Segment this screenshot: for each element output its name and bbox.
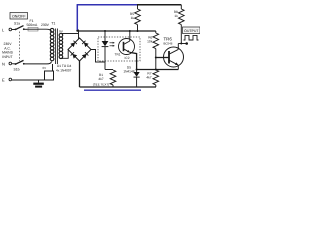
svg-text:TR1: TR1	[115, 53, 121, 57]
wire to transformer primary	[38, 29, 52, 31]
svg-text:T1: T1	[51, 22, 55, 26]
ground	[33, 80, 44, 88]
svg-text:S1a: S1a	[14, 22, 20, 26]
wire top rail black	[137, 4, 181, 6]
wire bridge right vertex down	[91, 50, 105, 63]
wire earth	[12, 79, 45, 81]
wire bridge bottom to 0V rail	[79, 61, 81, 87]
svg-text:BC548: BC548	[164, 42, 173, 46]
svg-text:1k: 1k	[174, 14, 178, 18]
svg-text:N: N	[2, 61, 5, 66]
transformer T1	[50, 22, 63, 64]
svg-text:S1b: S1b	[14, 67, 20, 71]
resistor R1	[93, 70, 116, 88]
svg-text:4x 1N4007: 4x 1N4007	[56, 69, 72, 73]
resistor R7	[146, 70, 158, 87]
diode D5	[123, 65, 139, 87]
screen box	[45, 71, 54, 80]
optocoupler IC2 dashed box	[98, 37, 140, 61]
svg-text:10k: 10k	[147, 40, 153, 44]
junction blue top	[76, 30, 78, 32]
svg-text:0V: 0V	[43, 66, 47, 70]
svg-text:ON/OFF: ON/OFF	[12, 15, 26, 19]
phototransistor TR1	[115, 30, 137, 70]
resistor R5	[130, 5, 140, 32]
terminal N	[2, 61, 12, 66]
wire 0V rail	[80, 86, 157, 88]
fuse F1	[27, 19, 39, 31]
svg-text:E: E	[2, 77, 5, 82]
terminal E	[2, 77, 12, 82]
svg-text:1N4148: 1N4148	[123, 70, 134, 74]
diode D1	[70, 41, 77, 48]
svg-text:4k7: 4k7	[98, 77, 103, 81]
wire secondary bottom	[63, 50, 69, 58]
transistor TR6	[164, 37, 184, 70]
wire screen to core	[52, 64, 54, 71]
bridge rectifier D1-D4	[56, 38, 91, 73]
wire secondary top to bridge	[63, 33, 79, 35]
wire blue riser	[76, 5, 78, 31]
wire	[25, 28, 29, 30]
node output	[185, 42, 188, 45]
svg-text:500mA: 500mA	[27, 23, 38, 27]
light arrows	[110, 42, 115, 47]
resistor R8	[174, 5, 184, 44]
wire to transformer primary bottom	[25, 62, 52, 64]
switch S1b	[14, 60, 25, 71]
diode D4	[82, 52, 89, 59]
svg-text:1k: 1k	[131, 16, 135, 20]
wire emitter line	[137, 69, 179, 71]
wire bridge top stem	[78, 30, 80, 39]
wire base	[156, 57, 169, 59]
svg-text:OUTPUT: OUTPUT	[184, 29, 199, 33]
wire positive rail	[77, 30, 156, 32]
svg-text:230V: 230V	[41, 23, 50, 27]
wire collector to output	[178, 43, 186, 45]
label box ON/OFF	[10, 13, 28, 20]
wire	[12, 63, 15, 65]
wire blue top	[77, 4, 137, 6]
svg-text:(SEE TEXT): (SEE TEXT)	[93, 83, 109, 87]
wire	[12, 29, 15, 31]
label box OUTPUT	[183, 27, 201, 34]
switch S1a	[14, 22, 25, 31]
text 230V A.C. MAINS INPUT	[2, 42, 13, 59]
diode D3	[71, 52, 78, 59]
square wave icon	[184, 35, 199, 40]
switch link dashed	[19, 32, 21, 62]
resistor R6	[147, 31, 158, 71]
svg-text:4k7: 4k7	[146, 76, 151, 80]
svg-text:INPUT: INPUT	[2, 55, 12, 59]
diode D2	[82, 41, 89, 48]
terminal L	[2, 27, 12, 32]
svg-text:IC2: IC2	[125, 56, 130, 60]
LED of optocoupler	[102, 30, 109, 70]
svg-text:D1 TO D4: D1 TO D4	[57, 64, 71, 68]
wire blue bottom	[84, 89, 141, 91]
